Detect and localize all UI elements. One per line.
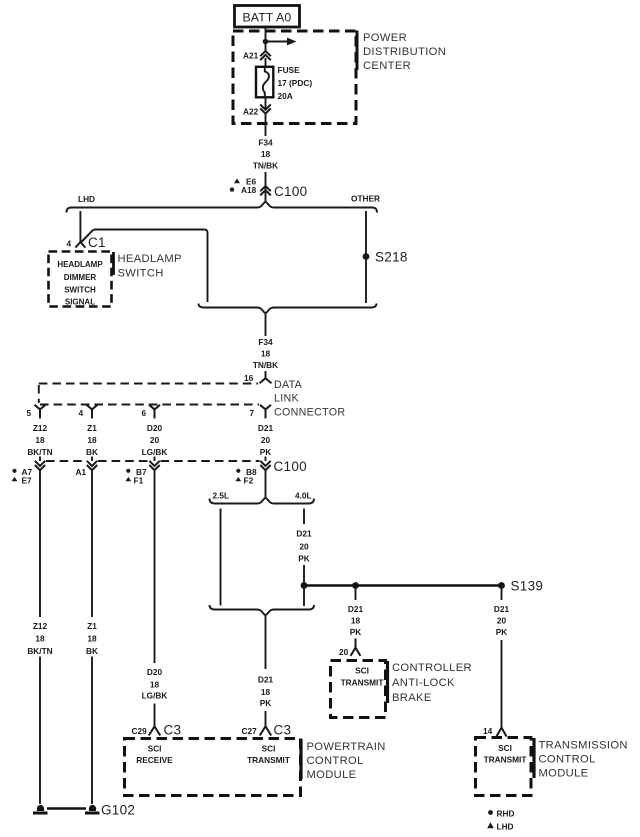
- marker A7: [12, 469, 16, 473]
- wire merge down: [265, 314, 267, 337]
- svg-text:4: 4: [79, 408, 84, 418]
- connector pin A22 chevrons: [260, 105, 271, 114]
- svg-text:HEADLAMP: HEADLAMP: [57, 260, 103, 269]
- wire fuse to A22: [265, 97, 267, 110]
- svg-text:C100: C100: [274, 184, 307, 199]
- svg-text:RHD: RHD: [497, 809, 515, 819]
- wires pins to C100: [39, 457, 41, 462]
- marker F1: [125, 477, 131, 481]
- svg-text:D20: D20: [147, 423, 163, 433]
- ground G102 left: [37, 805, 44, 811]
- svg-text:TRANSMIT: TRANSMIT: [247, 755, 290, 765]
- svg-text:18: 18: [87, 634, 97, 644]
- svg-text:7: 7: [250, 408, 255, 418]
- svg-text:A21: A21: [243, 51, 259, 61]
- svg-text:BK/TN: BK/TN: [27, 646, 52, 656]
- svg-text:SIGNAL: SIGNAL: [65, 298, 95, 307]
- svg-text:18: 18: [150, 680, 160, 690]
- svg-text:SWITCH: SWITCH: [64, 286, 96, 295]
- junction dot: [263, 39, 269, 45]
- svg-text:G102: G102: [101, 803, 135, 818]
- svg-text:Z1: Z1: [87, 621, 97, 631]
- legend RHD marker: [488, 810, 493, 815]
- wire Z12 down: [39, 470, 41, 617]
- svg-text:BK: BK: [86, 447, 98, 457]
- power distribution center dashed box: [233, 31, 356, 124]
- connector pin 20 CAB: [351, 639, 361, 656]
- svg-text:CENTER: CENTER: [363, 60, 411, 72]
- svg-text:Z12: Z12: [33, 423, 48, 433]
- svg-text:CONTROL: CONTROL: [307, 755, 364, 767]
- junction dot CAB tap: [352, 582, 359, 589]
- split brace LHD / OTHER: [67, 202, 378, 212]
- pin 5: [35, 405, 46, 419]
- connector C27: [260, 726, 271, 735]
- wire merge down to PCM: [265, 615, 267, 669]
- wire Z1 down: [91, 470, 93, 617]
- svg-text:TRANSMIT: TRANSMIT: [484, 755, 527, 765]
- svg-text:20: 20: [497, 616, 507, 626]
- svg-text:6: 6: [142, 408, 147, 418]
- svg-text:BK: BK: [86, 646, 98, 656]
- wire D20 to C29: [154, 704, 156, 727]
- svg-text:C27: C27: [242, 726, 258, 736]
- ground G102 right: [89, 805, 96, 811]
- wire 4.0L branch lower: [303, 565, 305, 586]
- wire from BATT A0 down: [265, 28, 267, 51]
- svg-text:FUSE: FUSE: [278, 65, 301, 75]
- transmission control module box: [476, 738, 532, 796]
- svg-text:D21: D21: [494, 604, 510, 614]
- svg-text:S218: S218: [375, 250, 408, 265]
- wire to DLC pin 16: [265, 371, 267, 378]
- svg-text:18: 18: [351, 616, 361, 626]
- data link connector top edge: [39, 383, 258, 385]
- C100 chevrons pin 7: [260, 461, 270, 470]
- svg-text:TRANSMIT: TRANSMIT: [341, 678, 384, 688]
- svg-text:D20: D20: [147, 667, 163, 677]
- pin 6: [149, 405, 160, 419]
- powertrain control module box: [125, 739, 301, 796]
- svg-text:18: 18: [261, 687, 271, 697]
- svg-text:MODULE: MODULE: [307, 769, 357, 781]
- wire to TCM pin 14: [501, 640, 503, 727]
- svg-text:F34: F34: [258, 138, 273, 148]
- svg-text:PK: PK: [260, 698, 272, 708]
- svg-text:BRAKE: BRAKE: [392, 692, 432, 704]
- wire A21 to fuse: [265, 58, 267, 67]
- svg-text:4: 4: [67, 239, 72, 249]
- engine split brace: [210, 498, 315, 503]
- svg-text:LG/BK: LG/BK: [142, 447, 168, 457]
- svg-text:SCI: SCI: [262, 744, 276, 754]
- wire 4.0L branch upper: [303, 509, 305, 525]
- svg-text:18: 18: [261, 149, 271, 159]
- svg-text:DATA: DATA: [274, 379, 303, 391]
- svg-text:F2: F2: [244, 475, 254, 485]
- wire Z1 lower: [91, 657, 93, 805]
- wire to C27: [265, 711, 267, 726]
- C100 chevrons pin 4: [87, 461, 97, 470]
- wire Z12 lower: [39, 657, 41, 805]
- svg-text:Z1: Z1: [87, 423, 97, 433]
- connector pin 14 TCM: [497, 728, 507, 737]
- merge brace: [199, 304, 377, 313]
- svg-text:18: 18: [35, 634, 45, 644]
- svg-text:TRANSMISSION: TRANSMISSION: [539, 740, 628, 752]
- svg-text:LINK: LINK: [274, 393, 300, 405]
- svg-text:LG/BK: LG/BK: [142, 691, 168, 701]
- svg-text:PK: PK: [350, 627, 362, 637]
- wire A22 out of PDC down: [265, 114, 267, 136]
- splice bus line: [304, 584, 502, 586]
- marker A18 (RHD): [230, 187, 234, 191]
- ground tie line: [47, 807, 86, 809]
- svg-text:A22: A22: [243, 107, 259, 117]
- svg-text:E7: E7: [22, 475, 33, 485]
- svg-text:HEADLAMP: HEADLAMP: [118, 253, 182, 265]
- svg-text:S139: S139: [511, 579, 544, 594]
- svg-text:F1: F1: [134, 475, 144, 485]
- svg-text:C3: C3: [274, 723, 292, 738]
- PCM label bar: [299, 739, 302, 779]
- svg-text:BK/TN: BK/TN: [27, 447, 52, 457]
- engine merge brace: [210, 605, 315, 615]
- svg-text:D21: D21: [348, 604, 364, 614]
- wire OTHER branch down: [365, 211, 367, 303]
- svg-text:4.0L: 4.0L: [295, 491, 312, 501]
- splice S139: [498, 582, 505, 589]
- svg-text:POWERTRAIN: POWERTRAIN: [307, 741, 386, 753]
- svg-text:A1: A1: [76, 467, 87, 477]
- svg-text:18: 18: [35, 435, 45, 445]
- pin 4: [87, 405, 98, 419]
- headlamp switch label bar: [112, 252, 115, 275]
- svg-text:F34: F34: [258, 337, 273, 347]
- arrow to other circuits: [266, 41, 289, 43]
- svg-text:RECEIVE: RECEIVE: [136, 755, 173, 765]
- svg-text:C3: C3: [164, 723, 182, 738]
- svg-text:18: 18: [261, 349, 271, 359]
- svg-text:20: 20: [339, 647, 349, 657]
- marker F2: [235, 477, 241, 481]
- svg-text:OTHER: OTHER: [351, 194, 380, 204]
- svg-text:17 (PDC): 17 (PDC): [278, 78, 313, 88]
- CAB label bar: [386, 661, 389, 703]
- wire S139 down: [501, 586, 503, 601]
- svg-text:C29: C29: [132, 726, 148, 736]
- legend LHD marker: [487, 822, 494, 828]
- connector C100 chevrons: [260, 186, 271, 195]
- svg-text:18: 18: [87, 435, 97, 445]
- svg-text:SWITCH: SWITCH: [118, 268, 164, 280]
- svg-text:LHD: LHD: [78, 194, 95, 204]
- svg-text:20: 20: [150, 435, 160, 445]
- svg-text:TN/BK: TN/BK: [253, 161, 278, 171]
- wire D21 down to engine split: [265, 470, 267, 499]
- svg-text:PK: PK: [260, 447, 272, 457]
- svg-text:A18: A18: [241, 185, 257, 195]
- marker E6 (LHD): [234, 178, 240, 183]
- svg-text:CONTROLLER: CONTROLLER: [392, 662, 472, 674]
- connector pin A21 chevrons: [260, 51, 271, 60]
- wire C1 branch loop right: [93, 230, 208, 303]
- svg-text:POWER: POWER: [363, 32, 407, 44]
- wire 4.0L to merge: [303, 586, 305, 607]
- wire 2.5L branch: [220, 509, 222, 606]
- controller anti-lock brake box: [331, 661, 386, 718]
- svg-text:DIMMER: DIMMER: [64, 273, 97, 282]
- svg-text:16: 16: [244, 373, 254, 383]
- headlamp dimmer switch signal box: [49, 252, 112, 307]
- svg-text:LHD: LHD: [497, 822, 514, 832]
- svg-text:C100: C100: [274, 459, 307, 474]
- marker E7: [12, 477, 18, 481]
- svg-text:SCI: SCI: [148, 744, 162, 754]
- svg-text:20: 20: [299, 542, 309, 552]
- wire LHD branch down to C1: [79, 211, 81, 243]
- pin 7: [260, 405, 271, 419]
- wire to C100: [265, 172, 267, 203]
- battery feed box BATT A0: [235, 6, 300, 28]
- svg-text:D21: D21: [258, 675, 274, 685]
- svg-text:SCI: SCI: [355, 666, 369, 676]
- TCM label bar: [532, 738, 535, 778]
- wire CAB tap down: [355, 586, 357, 601]
- svg-text:Z12: Z12: [33, 621, 48, 631]
- marker B8: [236, 469, 240, 473]
- marker B7: [126, 469, 130, 473]
- svg-text:DISTRIBUTION: DISTRIBUTION: [363, 46, 446, 58]
- svg-text:5: 5: [27, 408, 32, 418]
- C100 chevrons pin 5: [35, 461, 45, 470]
- connector C100 lower dashed line: [46, 460, 260, 462]
- svg-text:CONTROL: CONTROL: [539, 754, 596, 766]
- svg-text:SCI: SCI: [498, 743, 512, 753]
- fuse 17 (PDC) 20A: [256, 67, 273, 98]
- data link connector bottom edge: [40, 404, 259, 406]
- svg-text:TN/BK: TN/BK: [253, 360, 278, 370]
- junction dot 4.0L: [301, 582, 308, 589]
- svg-text:ANTI-LOCK: ANTI-LOCK: [392, 677, 455, 689]
- svg-text:2.5L: 2.5L: [213, 491, 230, 501]
- pin 16 connector: [260, 378, 272, 383]
- svg-text:14: 14: [483, 726, 493, 736]
- PDC label bar: [356, 31, 359, 71]
- svg-text:PK: PK: [298, 554, 310, 564]
- svg-text:C1: C1: [88, 235, 106, 250]
- svg-text:PK: PK: [496, 627, 508, 637]
- C100 chevrons pin 6: [149, 461, 159, 470]
- svg-text:D21: D21: [296, 529, 312, 539]
- svg-text:CONNECTOR: CONNECTOR: [274, 407, 345, 419]
- wire D20 down: [154, 470, 156, 663]
- connector C29: [149, 726, 160, 735]
- data link connector left edge: [38, 385, 40, 403]
- svg-text:20: 20: [261, 435, 271, 445]
- svg-text:D21: D21: [258, 423, 274, 433]
- connector C1: [75, 230, 92, 247]
- svg-text:BATT A0: BATT A0: [243, 10, 292, 24]
- svg-text:MODULE: MODULE: [539, 768, 589, 780]
- splice S218: [363, 253, 370, 260]
- svg-text:20A: 20A: [278, 91, 293, 101]
